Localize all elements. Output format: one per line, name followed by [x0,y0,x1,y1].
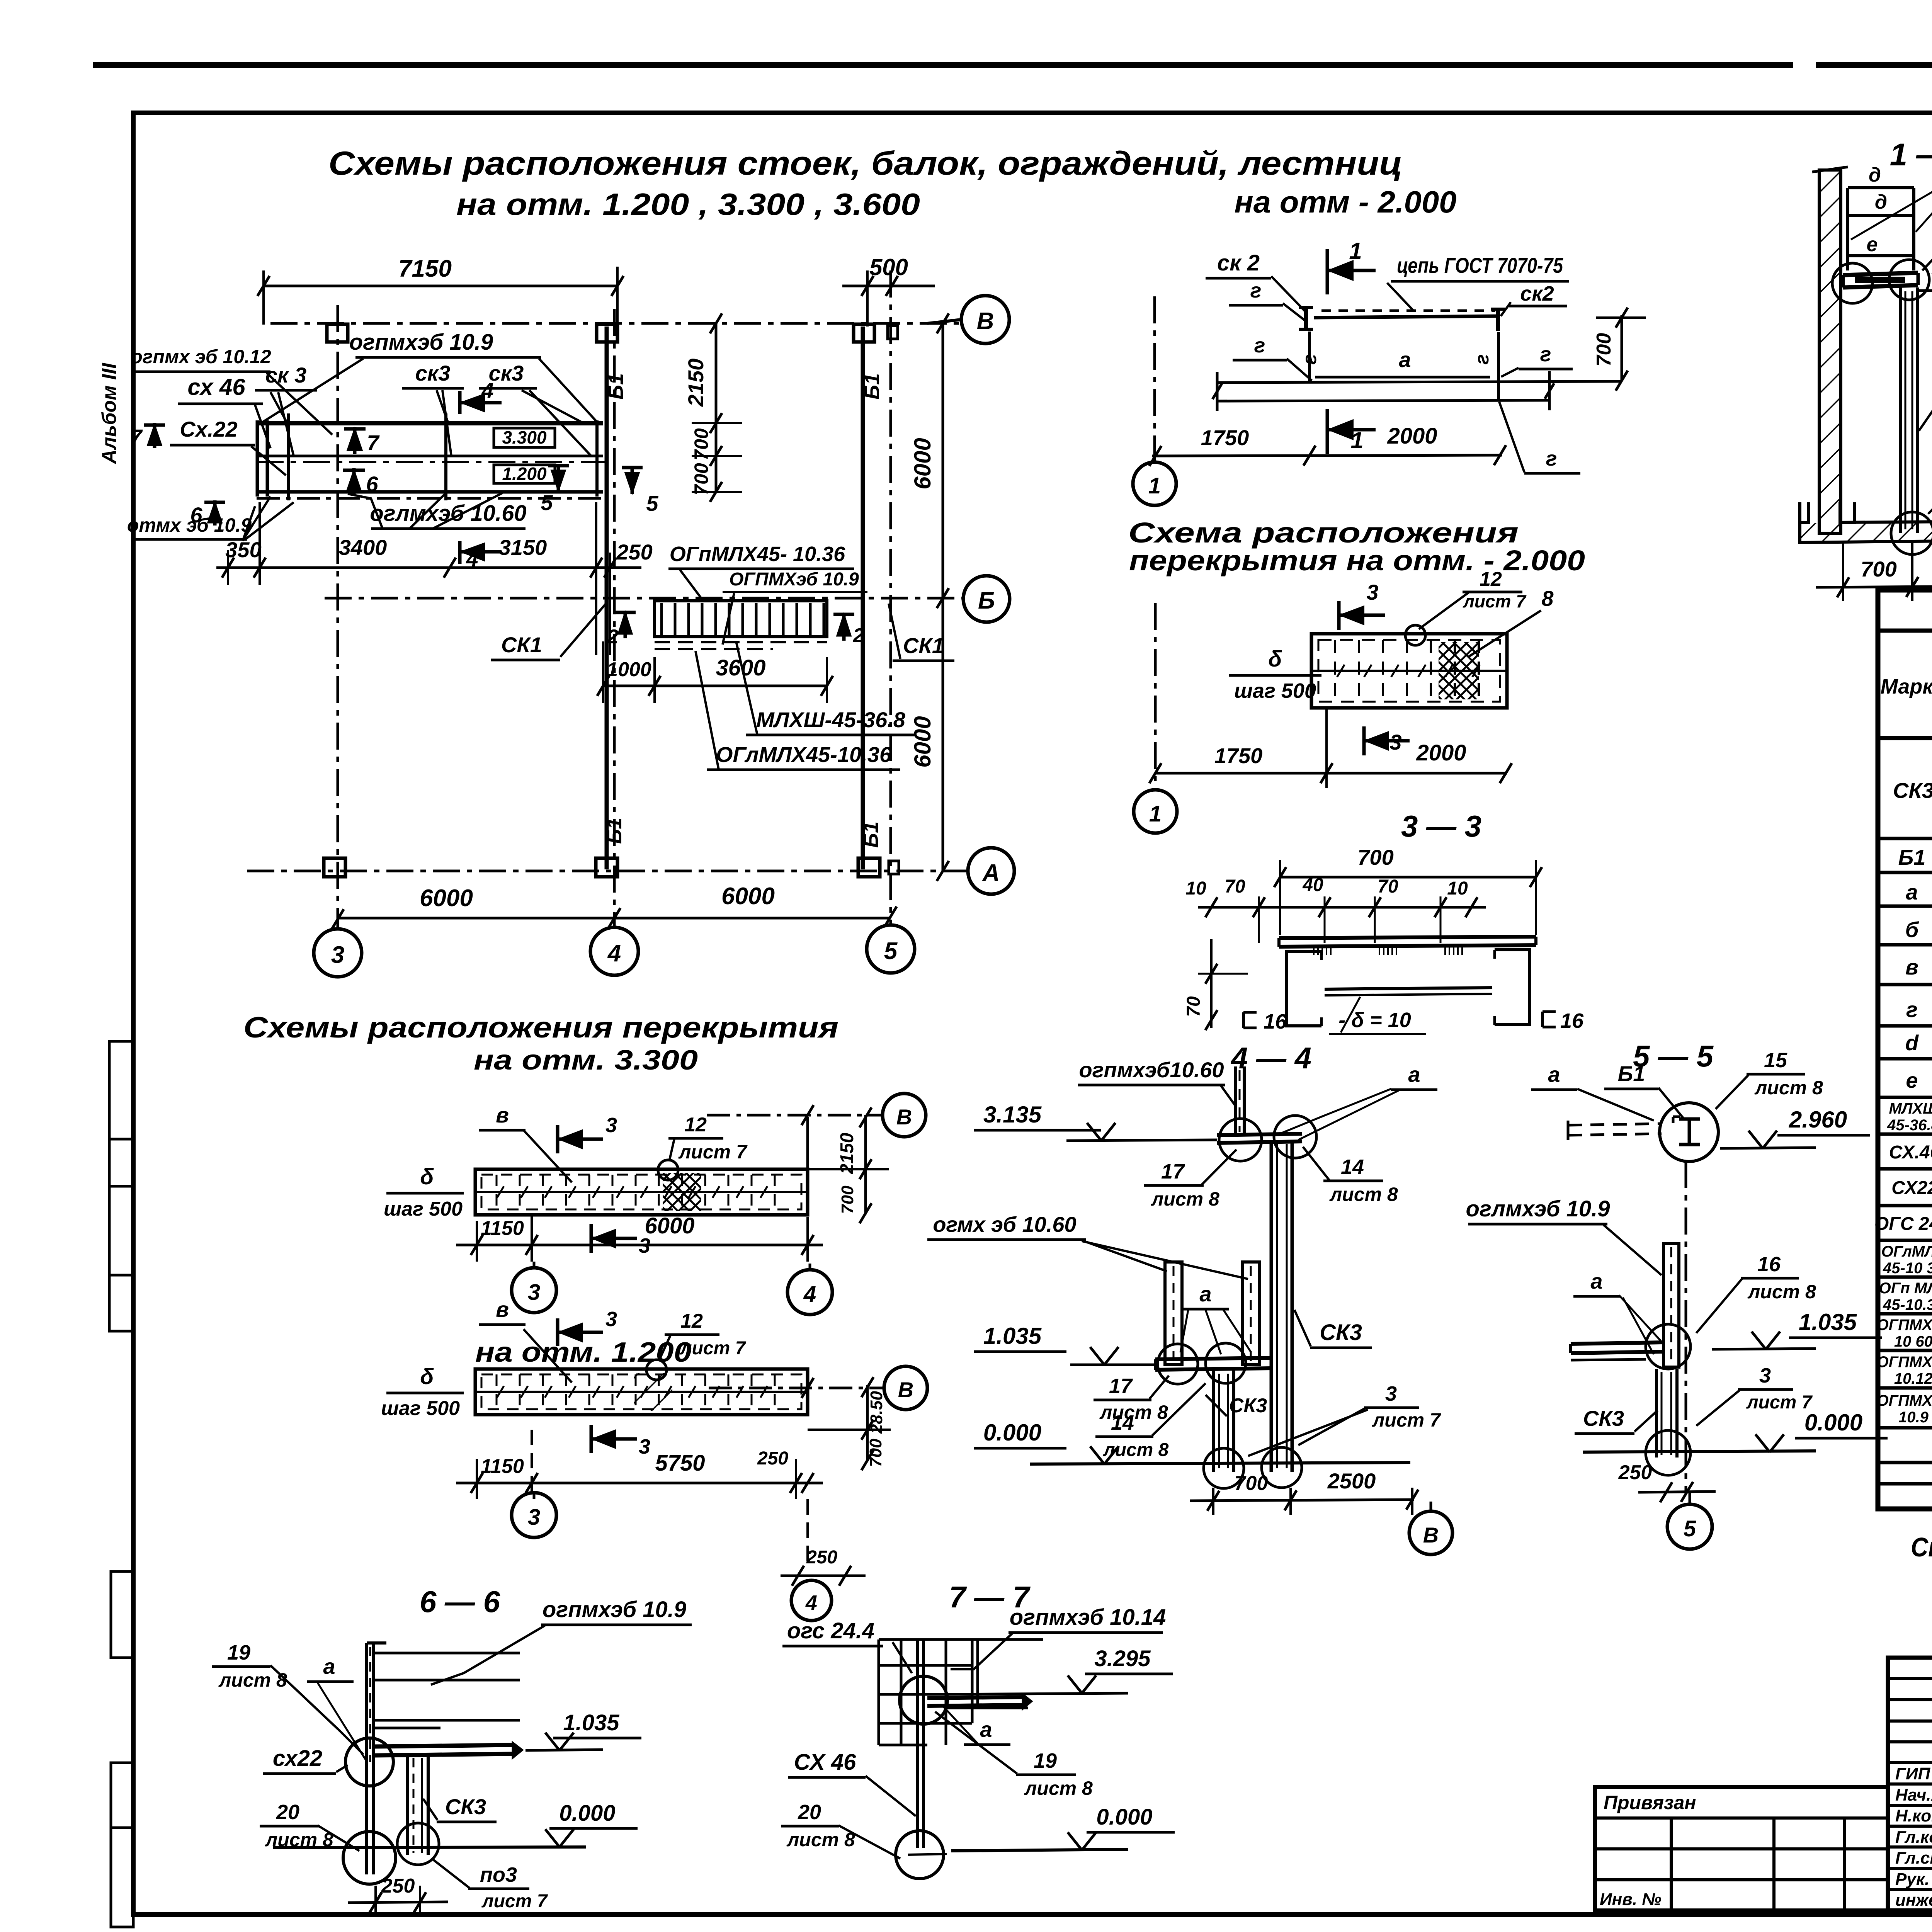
svg-text:3: 3 [605,1308,617,1331]
dimension 10-70-40-70-10 [1198,906,1486,909]
svg-text:лист 7: лист 7 [1372,1409,1441,1431]
label c16 right [1541,1012,1544,1027]
svg-text:д: д [1869,164,1881,186]
post 7-7 [916,1639,919,1848]
svg-text:7: 7 [130,425,143,449]
dimension 6000 6000 bottom [338,917,891,920]
svg-text:19: 19 [1034,1749,1057,1772]
railing chain dashes [1321,310,1495,312]
svg-text:3400: 3400 [339,535,387,560]
flag 5 down second [631,468,634,494]
svg-text:70: 70 [1378,876,1398,897]
floor profile 1-1 [1800,502,1808,522]
label box 1.200 [494,465,555,483]
svg-text:700: 700 [838,1185,857,1214]
beam 1.035 6-6 [374,1745,514,1747]
svg-text:а: а [980,1717,992,1742]
base circle post 6-6 [343,1832,396,1884]
svg-text:СХ.46: СХ.46 [1889,1142,1932,1163]
svg-text:лист 7: лист 7 [680,1338,747,1359]
beam dashed lines 5-5 [1568,1124,1662,1125]
svg-text:ск3: ск3 [415,361,451,385]
channel left 4-4 [1165,1262,1182,1365]
svg-text:19: 19 [227,1641,250,1664]
svg-text:5: 5 [1684,1516,1696,1541]
svg-text:6000: 6000 [420,885,473,912]
axis 5 dash-dot vertical [889,270,892,923]
svg-text:на отм. 3.300: на отм. 3.300 [474,1045,698,1076]
svg-text:В: В [1423,1523,1439,1547]
svg-text:оглмхэб 10.9: оглмхэб 10.9 [1466,1196,1610,1221]
svg-text:ск2: ск2 [1520,282,1554,305]
svg-text:700: 700 [1357,845,1393,869]
left margin box 1 [109,1041,133,1331]
svg-text:3: 3 [605,1114,617,1137]
svg-text:17: 17 [1161,1160,1185,1183]
band 1.200 bottom edge [259,490,603,494]
svg-text:1750: 1750 [1201,425,1249,450]
column square axis3/B [327,324,348,342]
svg-text:4: 4 [607,940,621,967]
axis 1 dash-dot top [1153,296,1156,466]
dimension 1000 3600 [603,685,827,687]
svg-text:ск3: ск3 [489,361,524,385]
lower post 4-4 [1212,1370,1215,1472]
svg-text:ОГп МЛХ: ОГп МЛХ [1879,1280,1932,1297]
svg-text:4 — 4: 4 — 4 [1230,1041,1311,1075]
slab 1.200 flag 3 top [556,1318,560,1346]
dimension 1750 2000 slab [1155,772,1507,775]
svg-text:а: а [1408,1062,1420,1087]
svg-text:0.000: 0.000 [1096,1804,1152,1830]
svg-text:ОГПМХэб: ОГПМХэб [1877,1392,1932,1409]
svg-text:6: 6 [366,472,378,496]
svg-text:250: 250 [381,1875,415,1897]
svg-text:1.200: 1.200 [502,464,547,484]
left margin box 2 [111,1571,133,1658]
detail circle beam left 4-4 [1219,1119,1262,1161]
svg-text:лист 7: лист 7 [1746,1392,1813,1413]
svg-text:3: 3 [331,942,344,968]
svg-text:7: 7 [367,430,380,455]
label c16 left [1242,1012,1245,1028]
svg-text:по3: по3 [480,1863,517,1886]
svg-text:Рук. гр.: Рук. гр. [1895,1870,1932,1889]
column line Б1 on axis 5 [861,327,865,869]
svg-text:700: 700 [1593,333,1615,367]
beam 7-7 [927,1697,1024,1698]
svg-text:Гл.конст: Гл.конст [1895,1828,1932,1847]
svg-text:1750: 1750 [1214,743,1263,768]
svg-text:а: а [1590,1269,1602,1293]
svg-text:лист 8: лист 8 [1329,1184,1398,1205]
svg-text:а: а [323,1654,335,1679]
svg-text:3: 3 [1385,1382,1397,1405]
svg-text:отмх эб 10.9: отмх эб 10.9 [127,514,252,536]
wall break top [1812,167,1848,172]
slab 3.300 axis circle B right [883,1094,926,1137]
section flag 4 in band [458,391,462,414]
slab 3.300 edge circle [658,1160,678,1180]
svg-text:16: 16 [1560,1009,1584,1032]
svg-text:огс 24.4: огс 24.4 [787,1618,874,1643]
svg-text:цепь ГОСТ 7070-75: цепь ГОСТ 7070-75 [1397,253,1563,277]
table title underline row [1878,629,1932,633]
column square axis5/B [854,324,874,342]
svg-text:3 — 3: 3 — 3 [1401,809,1481,843]
beam 3.135 level [1217,1134,1302,1135]
svg-text:45-10.36: 45-10.36 [1883,1296,1932,1313]
svg-text:700: 700 [690,463,712,495]
detail circle beam2 left [1158,1344,1198,1384]
svg-text:3.300: 3.300 [502,427,547,447]
column square axis4/A [596,858,617,877]
slab 3.300 flag 3 bottom [590,1224,593,1253]
svg-text:0.000: 0.000 [983,1420,1041,1446]
left margin box 3 [111,1763,133,1927]
svg-text:Б1: Б1 [1898,845,1926,869]
svg-text:1: 1 [1350,427,1363,453]
section3 inner plate [1325,988,1492,989]
dimension 500 [842,285,935,287]
detail circle 7-7 [900,1676,947,1724]
svg-text:12: 12 [1480,568,1502,590]
rails 6-6 [374,1652,520,1655]
svg-text:0.000: 0.000 [559,1801,615,1826]
svg-text:15: 15 [1764,1049,1787,1072]
svg-text:500: 500 [869,254,908,280]
svg-text:6 — 6: 6 — 6 [420,1585,500,1619]
svg-text:0.000: 0.000 [1804,1410,1862,1435]
svg-text:г: г [1906,997,1918,1022]
svg-text:3: 3 [639,1435,650,1458]
band lower dash-dot [257,497,607,500]
svg-text:δ: δ [1268,646,1282,672]
svg-text:ОГлМЛХ45-10,36: ОГлМЛХ45-10,36 [716,742,892,767]
svg-text:Гл.спец.: Гл.спец. [1895,1849,1932,1867]
band mid dash-dot II [257,461,607,463]
detail circle beam right 4-4 [1274,1116,1316,1158]
svg-text:3.295: 3.295 [1094,1646,1151,1671]
svg-text:16: 16 [1757,1253,1781,1276]
svg-text:сх22: сх22 [273,1746,322,1771]
svg-text:3: 3 [1759,1364,1771,1387]
slab 1.200 axis circle B right [884,1366,927,1410]
channel 5-5 [1663,1243,1679,1367]
mesh grid 7-7 [878,1639,880,1745]
svg-text:4: 4 [805,1591,817,1614]
svg-text:14: 14 [1111,1411,1134,1434]
flag 7 up arrow [353,427,357,454]
svg-text:шаг 500: шаг 500 [384,1198,463,1220]
svg-text:огпмх эб 10.12: огпмх эб 10.12 [131,346,271,367]
svg-text:В: В [898,1378,913,1402]
svg-text:СК3: СК3 [1320,1320,1362,1345]
svg-text:6000: 6000 [645,1213,694,1238]
svg-text:ОГпМЛХ45- 10.36: ОГпМЛХ45- 10.36 [670,543,845,566]
svg-text:ГИП: ГИП [1895,1764,1931,1783]
slab 3.300 axis circle 4 [787,1270,832,1315]
svg-text:а: а [1199,1282,1211,1306]
axis 1 dash-dot mid [1154,603,1157,789]
svg-text:3.135: 3.135 [983,1102,1042,1128]
column square axis3/A [324,858,345,877]
svg-text:Б1: Б1 [861,373,884,400]
svg-text:Схема расположения: Схема расположения [1128,517,1519,549]
beam 1.035 5-5 [1571,1342,1663,1344]
level tick right [1548,371,1551,410]
beam 1.035 4-4 [1155,1358,1271,1359]
level line 2 under railing [1217,400,1551,401]
axis 3 dash-dot vertical [337,305,339,927]
wall hatched 1-1 [1819,170,1841,533]
svg-text:250: 250 [806,1547,837,1568]
slab 1.200 flag 3 bottom [590,1425,593,1453]
svg-text:огмх эб 10.60: огмх эб 10.60 [933,1212,1076,1236]
column line Б1 on axis 4 [605,327,609,869]
CK3 post 1 in band [287,413,290,500]
section flag 1 bottom [1326,409,1329,454]
dimension 7150 [264,285,617,287]
svg-text:2: 2 [853,624,864,647]
svg-text:6000: 6000 [910,716,935,767]
svg-text:2500: 2500 [1327,1469,1376,1493]
svg-text:70: 70 [1184,996,1204,1017]
base circle col 6-6 [397,1823,439,1865]
svg-text:2.960: 2.960 [1789,1107,1847,1133]
column CK3 5-5 [1655,1369,1658,1458]
base circle left 4-4 [1204,1448,1244,1488]
dimension chain 2150-700-700 [715,323,718,492]
axis circle 1 top [1133,462,1176,505]
axis circle 5 [867,925,915,973]
section flag 1 top [1326,249,1329,294]
svg-text:Б1: Б1 [1618,1061,1645,1086]
ladder rungs 1-1 [1848,186,1914,189]
svg-text:45-36.8: 45-36.8 [1887,1117,1932,1134]
svg-text:Б1: Б1 [859,821,883,848]
svg-text:1: 1 [1148,473,1161,498]
svg-text:700: 700 [690,428,712,461]
section flag 3 top slab [1337,601,1341,630]
svg-text:Схемы расположения перекры: Схемы расположения перекрытия [243,1011,838,1044]
svg-text:2: 2 [607,626,619,648]
svg-text:СХ22: СХ22 [1891,1178,1932,1198]
svg-text:А: А [982,860,1000,886]
level line under railing [1217,381,1622,383]
slab -2.000 center line [1311,670,1507,672]
svg-text:г: г [1546,447,1557,470]
axis 4 dash-dot vertical [613,309,616,926]
band left end bars [256,420,259,497]
svg-text:10.12: 10.12 [1894,1370,1932,1387]
svg-text:СК3: СК3 [1893,778,1932,803]
axis circle A [968,848,1014,894]
dimension 70 vertical section3 [1210,939,1213,1028]
svg-text:1.035: 1.035 [563,1710,619,1735]
dimension 700 1-1 [1816,587,1932,587]
slab 1.200 axis circle 3 [512,1493,556,1537]
slab 3.300 right edge extension [806,1117,809,1171]
svg-text:250: 250 [757,1448,788,1469]
svg-text:700: 700 [866,1439,885,1467]
table header row lines [1878,736,1932,740]
section3 weld ticks [1313,947,1315,955]
slab 3.300 flag 3 top [556,1125,560,1153]
svg-text:Схемы расположения стоек, б: Схемы расположения стоек, балок, огражде… [328,145,1403,182]
beam detail circle 5-5 [1660,1103,1718,1162]
slab 3.300 axis circle 3 [512,1268,556,1313]
svg-text:г: г [1254,334,1265,357]
flag 7 left [153,423,156,448]
svg-text:Б: Б [978,587,995,614]
rails right 7-7 [923,1638,1043,1641]
svg-text:2000: 2000 [1416,740,1466,765]
svg-text:перекрытия на отм. - 2.000: перекрытия на отм. - 2.000 [1129,544,1585,577]
svg-text:Марка: Марка [1881,675,1932,698]
svg-text:20: 20 [798,1801,821,1824]
axis B leader [927,320,961,323]
svg-text:ОГС 24.4: ОГС 24.4 [1874,1214,1932,1234]
detail circle 5-5 mid [1646,1324,1690,1369]
svg-text:оглмхэб 10.60: оглмхэб 10.60 [370,501,526,526]
svg-text:огпмхэб 10.9: огпмхэб 10.9 [543,1597,686,1622]
svg-text:МЛХШ-45-36.8: МЛХШ-45-36.8 [756,707,906,732]
svg-text:5: 5 [646,491,658,515]
svg-text:МЛХЩ: МЛХЩ [1889,1100,1932,1117]
svg-text:сх 46: сх 46 [187,374,245,400]
svg-text:СК1: СК1 [501,633,542,657]
svg-text:1150: 1150 [481,1217,524,1240]
svg-text:е: е [1867,233,1878,256]
svg-text:28.50: 28.50 [867,1391,886,1434]
svg-text:ск 3: ск 3 [265,363,306,387]
svg-text:огпмхэб10.60: огпмхэб10.60 [1079,1058,1224,1082]
svg-text:3150: 3150 [499,535,547,560]
svg-text:1: 1 [1349,238,1362,264]
svg-text:д: д [1875,191,1887,213]
svg-text:Альбом III: Альбом III [98,362,121,465]
svg-text:Нач.АСО: Нач.АСО [1895,1786,1932,1804]
svg-text:2150: 2150 [684,359,708,407]
svg-text:10 60: 10 60 [1894,1333,1932,1350]
column CK2 1-1 [1899,287,1902,533]
svg-text:5: 5 [541,490,553,515]
slab 1.200 plan [475,1369,808,1415]
band 3.300 bottom edge [259,455,603,457]
flag 6 left [213,500,217,526]
svg-text:250: 250 [616,540,652,564]
channel right 4-4 [1242,1262,1259,1365]
section3 left channel [1287,951,1321,1026]
dimension 700 section3 [1279,876,1537,879]
railing left edge vertical [1308,332,1311,383]
bracket circle right [1889,260,1929,300]
axis B dash-dot [270,322,963,325]
label box 3.300 [494,428,555,447]
svg-text:на отм. 1.200: на отм. 1.200 [475,1337,692,1368]
slab -2.000 detail circle on edge [1405,625,1425,645]
svg-text:10: 10 [1185,878,1206,899]
svg-text:СК1: СК1 [903,633,944,658]
svg-text:- δ = 10: - δ = 10 [1338,1009,1411,1032]
dimension 350-3400-3150-250 [216,566,641,569]
right post CK2 symbol [1496,309,1500,331]
slab 1.200 edge circle [646,1360,667,1380]
slab -2.000 outline [1311,634,1507,708]
svg-text:1.035: 1.035 [983,1323,1042,1349]
svg-text:5750: 5750 [655,1451,705,1476]
svg-text:в: в [1905,955,1918,979]
axis circle 1 mid [1134,790,1177,833]
svg-text:ОГПМХэб 10.9: ОГПМХэб 10.9 [729,569,859,590]
railing strip lower dashed lines [655,641,827,643]
svg-text:а: а [1906,880,1918,904]
axis circle 5 section55 [1667,1504,1712,1549]
detail circle beam2 right [1206,1343,1246,1383]
svg-text:6000: 6000 [910,438,935,489]
floor base circle 1-1 [1891,512,1932,554]
svg-text:В: В [896,1105,912,1129]
svg-text:на отм - 2.000: на отм - 2.000 [1235,185,1457,219]
svg-text:10: 10 [1447,878,1468,899]
left post CK2 symbol [1304,308,1308,329]
svg-text:250: 250 [1618,1461,1652,1484]
section flag 3 bottom slab [1362,726,1366,755]
svg-text:лист 7: лист 7 [1463,591,1527,611]
dimension chain 6000-6000 right [942,323,944,871]
svg-text:Б1: Б1 [604,373,628,400]
ladder rails 1-1 [1846,188,1849,270]
line a with label [1315,376,1490,379]
section3 right channel [1495,950,1529,1025]
svg-text:лист 8: лист 8 [1151,1188,1219,1210]
svg-text:СХ 46: СХ 46 [794,1750,856,1775]
base circle right 4-4 [1262,1447,1302,1488]
svg-text:огпмхэб 10.9: огпмхэб 10.9 [349,330,493,355]
axis Б dash-dot [325,597,965,600]
svg-text:3: 3 [528,1280,540,1305]
svg-text:1.035: 1.035 [1799,1309,1857,1335]
sheet outer top edge line [93,62,1793,68]
flag 6 up arrow [352,468,356,495]
svg-text:В: В [977,308,994,335]
svg-text:4: 4 [466,547,478,571]
base circle 7-7 [896,1831,944,1879]
svg-text:7150: 7150 [398,255,452,282]
section flag 2 left [624,612,627,638]
section3 top plate [1279,937,1536,938]
svg-text:δ: δ [420,1364,434,1389]
slab 3.300 plan [475,1169,808,1215]
svg-text:г: г [1299,354,1320,365]
svg-text:6000: 6000 [721,883,775,910]
dimension 700 2500 4-4 [1190,1500,1414,1501]
left attest block columns [1670,1818,1673,1910]
section flag 2 right [842,614,846,641]
svg-text:ОГПМХэб: ОГПМХэб [1877,1354,1932,1371]
column square axis4/B [597,324,617,342]
base circle 5-5 [1646,1430,1690,1475]
svg-text:а: а [1399,347,1411,372]
svg-text:б: б [1905,917,1919,942]
dimension 1750 2000 railing plan [1152,455,1502,456]
svg-text:10.9: 10.9 [1898,1409,1929,1426]
svg-text:17: 17 [1109,1374,1133,1398]
svg-text:ОГПМХэб: ОГПМХэб [1877,1316,1932,1333]
section flag 4 on dim [458,541,462,564]
svg-text:Стойку СК2 смотреть лист 4.: Стойку СК2 смотреть лист 4. [1911,1532,1932,1562]
